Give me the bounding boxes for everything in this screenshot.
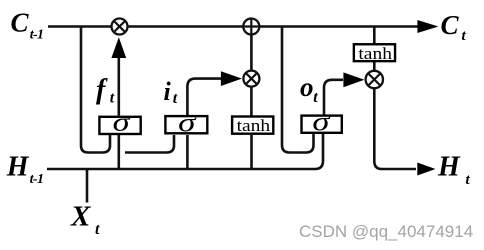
svg-text:t: t bbox=[110, 89, 115, 106]
sigma gate i bbox=[165, 116, 207, 133]
output tanh box bbox=[354, 44, 395, 61]
svg-text:i: i bbox=[164, 77, 172, 106]
multiply node (input gate) bbox=[243, 71, 259, 87]
wire H-line (Ht-1 into output gate) bbox=[47, 134, 323, 169]
wire peephole drop from C-line into forget gate bbox=[81, 27, 110, 153]
multiply node on C-line (forget) bbox=[112, 19, 128, 35]
svg-text:t: t bbox=[462, 28, 467, 44]
wire peephole segment to input gate (hop over H input) bbox=[125, 135, 174, 153]
svg-text:C: C bbox=[11, 8, 30, 38]
svg-text:tanh: tanh bbox=[358, 44, 392, 63]
add node on C-line bbox=[243, 19, 259, 35]
svg-text:σ: σ bbox=[113, 108, 132, 137]
svg-text:o: o bbox=[300, 72, 314, 102]
wire vertical add to multiply to tanh box bbox=[250, 27, 253, 117]
wire output multiply down to H_t arrow bbox=[374, 89, 416, 170]
sigma gate f bbox=[99, 117, 140, 134]
wire C-line (Ct-1 to Ct) bbox=[48, 25, 419, 28]
svg-text:CSDN @qq_40474914: CSDN @qq_40474914 bbox=[299, 222, 473, 241]
svg-text:C: C bbox=[441, 10, 460, 40]
multiply node (output) bbox=[366, 71, 383, 88]
wire H input to candidate tanh bbox=[250, 135, 253, 169]
wire H input to f-gate bbox=[118, 135, 121, 169]
svg-text:t-1: t-1 bbox=[30, 27, 44, 42]
wire output tanh to multiply bbox=[373, 62, 376, 71]
sigma gate o bbox=[302, 116, 342, 133]
svg-text:σ: σ bbox=[178, 108, 197, 137]
svg-text:tanh: tanh bbox=[237, 116, 271, 135]
svg-text:H: H bbox=[437, 152, 461, 183]
svg-text:t: t bbox=[173, 90, 178, 107]
svg-text:σ: σ bbox=[312, 107, 331, 136]
svg-text:f: f bbox=[96, 75, 108, 106]
svg-text:t: t bbox=[313, 89, 318, 106]
wire H input to i-gate bbox=[186, 135, 189, 169]
svg-text:t: t bbox=[466, 172, 471, 188]
arrowhead C_t output bbox=[417, 20, 438, 33]
svg-text:t-1: t-1 bbox=[30, 172, 44, 187]
wire C-line drop into output tanh bbox=[373, 27, 376, 44]
wire o-gate output arrow into multiply bbox=[324, 80, 343, 115]
wire peephole drop from C-line into output gate bbox=[282, 27, 314, 153]
wire f-gate output arrow into multiply bbox=[118, 50, 121, 116]
wire X_t input bbox=[86, 169, 89, 203]
candidate tanh box bbox=[232, 117, 273, 134]
svg-text:H: H bbox=[6, 152, 30, 183]
svg-text:X: X bbox=[70, 201, 91, 233]
wire i-gate output to multiply bbox=[187, 79, 222, 116]
svg-text:t: t bbox=[95, 221, 100, 238]
